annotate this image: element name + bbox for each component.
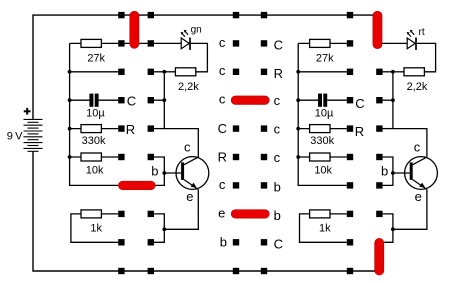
- svg-text:b: b: [274, 180, 281, 195]
- wire right row6 contact to base node: [383, 173, 410, 185]
- wire row2 contact stub to node: [154, 71, 164, 73]
- svg-text:c: c: [414, 139, 421, 154]
- wire 1k leads and drop row7-row8: [71, 214, 118, 242]
- wire collector bus vertical row2-row4 to transistor: [164, 72, 198, 158]
- red jumper wire link top-left supply to row1: [130, 11, 139, 48]
- wire row1 between contact columns: [125, 42, 148, 44]
- wire 330k leads row4: [70, 128, 119, 130]
- resistor R10 1k: [310, 210, 332, 235]
- red jumper wire link left row6: [118, 181, 155, 189]
- resistor R2 2.2k: [175, 68, 199, 93]
- resistor R4 10k: [81, 153, 104, 177]
- svg-text:27k: 27k: [316, 53, 334, 65]
- junction dots right rail: [296, 70, 300, 159]
- svg-text:rt: rt: [419, 27, 425, 38]
- svg-text:10k: 10k: [86, 165, 104, 177]
- wire right collector bus vertical row2-row4 to transistor: [393, 72, 427, 158]
- junction dot left base node: [162, 171, 166, 175]
- wire right row3 rail to capacitor: [298, 99, 318, 101]
- wire row3 rail to capacitor: [70, 99, 90, 101]
- wire right vertical bus + row6 to contact: [298, 43, 347, 185]
- wire 1k right leads and drop row7-row8: [300, 214, 347, 242]
- contact dots right column E: [347, 12, 353, 274]
- svg-text:b: b: [381, 164, 388, 179]
- wire emitter down to rows 7-8 contacts: [154, 190, 198, 243]
- wire capacitor to row3 contact: [99, 99, 119, 101]
- junction dots left collector bus: [162, 70, 166, 102]
- wire right row2 contact stub to node: [383, 71, 393, 73]
- resistor R1 27k: [81, 39, 106, 64]
- wire 2.2k right lead: [393, 71, 404, 73]
- resistor R9 10k: [310, 153, 333, 177]
- red jumper wire link top-right supply to row1: [373, 11, 382, 49]
- junction dots left rail: [68, 70, 72, 159]
- svg-text:1k: 1k: [90, 223, 102, 235]
- wire row1 contact to LED anode: [154, 42, 181, 44]
- battery BT1 9V: [24, 119, 43, 151]
- svg-text:2,2k: 2,2k: [178, 81, 199, 93]
- svg-text:C: C: [355, 96, 364, 111]
- node labels middle-right column C R c c c b b C: [274, 38, 283, 252]
- svg-text:c: c: [274, 150, 281, 165]
- svg-text:330k: 330k: [310, 135, 334, 147]
- svg-text:c: c: [184, 139, 191, 154]
- resistor R6 27k: [310, 39, 335, 64]
- svg-text:10µ: 10µ: [86, 108, 105, 120]
- wire row5 contact to base node: [154, 157, 164, 173]
- svg-text:c: c: [274, 122, 281, 137]
- wire row2 rail to contact: [70, 71, 119, 73]
- transistor Q2 with c b e labels: [381, 139, 437, 204]
- svg-text:e: e: [218, 205, 225, 220]
- wire top supply rail (+) from battery to right jumper: [33, 15, 377, 119]
- svg-text:b: b: [274, 208, 281, 223]
- contact dots middle column D: [261, 12, 267, 274]
- wire right row5 contact to base node: [383, 157, 393, 173]
- resistor R8 330k: [310, 125, 335, 147]
- wire right row4 contact stub to collector bus: [383, 128, 393, 130]
- svg-text:C: C: [274, 38, 283, 53]
- svg-text:c: c: [219, 63, 226, 78]
- svg-text:10k: 10k: [314, 165, 332, 177]
- contact dots middle column C: [233, 12, 239, 274]
- contact dots left column B: [148, 12, 154, 274]
- svg-text:b: b: [151, 164, 158, 179]
- svg-text:9 V: 9 V: [7, 131, 23, 143]
- junction dot right base node: [391, 171, 395, 175]
- resistor R3 330k: [81, 125, 106, 147]
- wire LED cathode down to 2.2k: [190, 43, 207, 71]
- capacitor C2 10u: [315, 94, 334, 120]
- battery plus terminal marker: [24, 108, 31, 115]
- wire right LED cathode down to 2.2k: [416, 43, 436, 71]
- wire row4 contact stub to collector bus: [154, 128, 164, 130]
- svg-text:C: C: [274, 237, 283, 252]
- wire 10k leads row5: [70, 156, 119, 158]
- junction dot left emitter node: [162, 227, 166, 231]
- svg-text:e: e: [415, 189, 422, 204]
- wire left vertical bus + row6 link to base node: [70, 43, 182, 185]
- svg-text:c: c: [274, 93, 281, 108]
- node labels middle-left column c c c C R c e b: [218, 35, 227, 250]
- svg-text:c: c: [219, 177, 226, 192]
- wire row3 contact stub to node: [154, 99, 164, 101]
- resistor R7 2.2k: [404, 68, 428, 93]
- red jumper wire link bottom-right row8 to supply: [375, 238, 384, 275]
- red jumper wire link middle row3: [231, 96, 269, 104]
- wire 2.2k left lead: [164, 71, 175, 73]
- junction dots right collector bus: [391, 70, 395, 102]
- wire right row2 rail to contact: [298, 71, 347, 73]
- LED D2 red (rt): [407, 27, 425, 50]
- svg-text:2,2k: 2,2k: [407, 81, 428, 93]
- wire 330k right leads row4: [298, 128, 347, 130]
- svg-text:27k: 27k: [87, 53, 105, 65]
- svg-text:R: R: [218, 149, 227, 164]
- svg-text:gn: gn: [191, 25, 202, 36]
- wire 27k right leads row1: [298, 42, 347, 44]
- contact dots left column A: [118, 12, 124, 274]
- svg-text:1k: 1k: [319, 223, 331, 235]
- LED D1 green (gn): [181, 25, 202, 50]
- wire bottom supply rail (-) from battery to right jumper: [33, 152, 379, 271]
- svg-text:R: R: [274, 66, 283, 81]
- svg-text:c: c: [219, 35, 226, 50]
- svg-text:C: C: [127, 94, 136, 109]
- resistor R5 1k: [81, 210, 103, 235]
- wire 27k leads row1: [70, 42, 119, 44]
- wire right capacitor to row3 contact: [327, 99, 347, 101]
- capacitor C1 10u: [86, 94, 105, 120]
- transistor Q1 with c b e labels: [151, 139, 209, 204]
- svg-text:10µ: 10µ: [315, 108, 334, 120]
- red jumper wire link middle row7: [231, 210, 269, 218]
- contact dots right column F: [376, 69, 382, 218]
- wire right emitter down to row7 contact and bottom jumper: [383, 190, 427, 243]
- svg-text:c: c: [219, 92, 226, 107]
- svg-text:e: e: [186, 189, 193, 204]
- junction dot right emitter node: [391, 227, 395, 231]
- svg-text:C: C: [218, 121, 227, 136]
- svg-text:330k: 330k: [82, 135, 106, 147]
- svg-text:R: R: [126, 122, 135, 137]
- wire right row3 contact stub to node: [383, 99, 393, 101]
- wire 10k right leads row5: [298, 156, 347, 158]
- svg-text:b: b: [220, 235, 227, 250]
- wire right row1 jumper to LED anode: [379, 42, 407, 44]
- svg-text:R: R: [355, 124, 364, 139]
